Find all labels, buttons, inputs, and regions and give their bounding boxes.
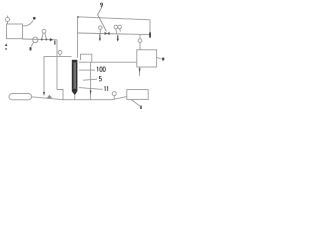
- wire cross line: [44, 55, 72, 57]
- wire column to box: [79, 61, 137, 63]
- valve V5: [114, 25, 118, 29]
- leader label 5: [83, 79, 97, 80]
- leader label 100: [79, 69, 95, 71]
- fitting blob: [47, 95, 53, 99]
- label 1 dot: [5, 48, 6, 50]
- label 10 dash: [54, 41, 55, 45]
- valve V3: [99, 26, 102, 29]
- label 7: [30, 47, 32, 50]
- arrow down port B: [117, 35, 119, 42]
- tank T1 top circle: [7, 16, 9, 18]
- valve V7: [139, 35, 141, 50]
- label 8 dot: [33, 17, 36, 20]
- pump P1: [33, 37, 38, 42]
- flow arrow: [50, 38, 53, 41]
- node end fitting: [149, 32, 151, 37]
- wire column drain tip: [74, 95, 76, 100]
- column C100 body: [72, 60, 78, 95]
- arrow 1 under tank: [5, 43, 8, 46]
- tank T1 box: [7, 24, 23, 39]
- wire bottom main: [32, 97, 127, 100]
- outlet pipe under box: [139, 67, 141, 76]
- label 100: [97, 67, 105, 72]
- wire main vertical feed: [77, 17, 79, 58]
- valve V4 bowtie: [105, 32, 110, 36]
- label 9: [101, 3, 103, 7]
- arrow on drain branch: [90, 90, 92, 95]
- valve V1: [42, 29, 46, 33]
- wire elbow to drain: [57, 90, 63, 100]
- wire top pipe: [78, 17, 151, 20]
- wire gas manifold: [78, 33, 151, 35]
- arrow on outlet: [139, 68, 141, 73]
- valve V8: [112, 92, 116, 96]
- leader label 4: [157, 57, 162, 59]
- wire down branch: [43, 56, 45, 92]
- label 6: [140, 106, 142, 109]
- valve V2: [58, 51, 62, 55]
- label 5: [99, 76, 102, 81]
- node corner dot: [77, 16, 79, 18]
- leader to label 8: [23, 20, 34, 26]
- arrow on down branch: [43, 92, 45, 96]
- condenser box U2: [137, 50, 157, 67]
- wire column top zigzag: [81, 54, 92, 62]
- arrow down port A: [99, 34, 101, 41]
- label 4 dot: [162, 58, 164, 61]
- receiver flask stadium: [9, 94, 32, 100]
- wire feed line: [23, 38, 58, 41]
- leader label 6: [131, 99, 141, 106]
- leader label 11: [79, 88, 103, 90]
- label 11: [104, 86, 107, 91]
- leader label 9: [98, 7, 107, 31]
- valve V6: [118, 25, 122, 29]
- leader to label 7: [31, 42, 33, 46]
- collector box U3: [127, 90, 148, 100]
- wire down from junction: [56, 40, 58, 90]
- wire right drop: [149, 20, 151, 35]
- wire down to drain line: [90, 62, 92, 99]
